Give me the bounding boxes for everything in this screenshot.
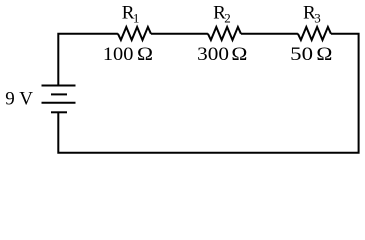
battery B1: long plate <box>42 102 76 104</box>
wire: battery positive up and across to R1 <box>58 34 118 86</box>
battery B1: negative short plate <box>51 111 67 113</box>
wire: R2 to R3 <box>241 33 298 35</box>
svg-text:R2: R2 <box>213 3 231 26</box>
svg-text:R1: R1 <box>122 3 140 26</box>
resistor R3 <box>298 27 331 40</box>
svg-text:Ω: Ω <box>231 44 247 65</box>
svg-text:Ω: Ω <box>137 44 153 65</box>
resistor R2 <box>208 27 241 40</box>
wire: R3 right, down right side, along bottom, up to battery negative <box>58 34 358 153</box>
svg-text:50: 50 <box>290 44 313 65</box>
battery B1: positive long plate <box>42 85 76 87</box>
svg-text:R3: R3 <box>303 3 321 26</box>
svg-text:9 V: 9 V <box>5 89 33 110</box>
wire: R1 to R2 <box>151 33 208 35</box>
battery B1: short plate <box>51 93 67 95</box>
svg-text:Ω: Ω <box>316 44 332 65</box>
svg-text:100: 100 <box>103 44 133 65</box>
svg-text:300: 300 <box>197 44 229 65</box>
resistor R1 <box>118 27 151 40</box>
